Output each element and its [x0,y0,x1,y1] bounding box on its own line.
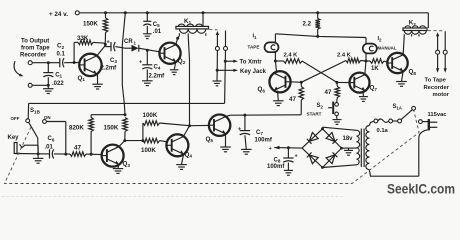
wire Q3 collector [119,139,127,147]
svg-text:.01: .01 [45,145,54,151]
svg-text:C6: C6 [48,136,55,142]
node input terminal lower [28,83,32,87]
capacitor C2 0.1 [57,43,66,68]
svg-text:150K: 150K [83,21,98,28]
resistor 2.2K supply [303,13,321,38]
lamp I2 MANUAL [363,36,397,61]
svg-text:C8: C8 [274,157,281,163]
transistor Q7 [350,73,378,93]
transistor Q5 [206,115,231,144]
resistor 100K lower [141,138,160,154]
wire K1 right contact down [224,50,227,103]
capacitor C8 100mf [267,148,298,171]
wire bridge right to ground [342,148,357,150]
wire 100K upper to node [160,123,190,126]
wire primary top to fuse [369,121,374,125]
svg-text:Key Jack: Key Jack [240,69,267,75]
resistor 820K [69,115,93,155]
wire switch linkage dashed [5,111,420,184]
wire rail to bias divider [122,11,127,114]
svg-text:I2: I2 [378,36,383,42]
wire C6 to 47 ohm [54,153,70,156]
ground Q2 emitter [170,62,179,75]
svg-text:820K: 820K [69,124,84,131]
svg-text:ON: ON [44,115,51,120]
watermark SeekIC.com [387,181,455,197]
wire K1 left contact to ground [216,50,219,81]
svg-text:100K: 100K [143,112,158,119]
node input terminal upper [28,61,32,65]
svg-text:+: + [107,40,110,46]
wire Q5 collector [226,114,302,117]
svg-text:Recorder: Recorder [424,85,450,91]
wire Q6 collector [275,61,276,72]
ground transformer center tap [344,150,353,155]
ground C5 [143,34,152,39]
svg-text:TAPE: TAPE [248,44,260,49]
svg-text:+ 24 v.: + 24 v. [49,11,68,18]
svg-text:START: START [307,111,322,116]
wire +24V rail [79,11,428,14]
resistor 150K Q3 collector [104,118,128,141]
svg-text:115vac: 115vac [428,112,448,118]
capacitor C7 100mf [238,115,273,149]
svg-text:+: + [238,127,241,133]
svg-text:47: 47 [325,89,332,96]
diode bridge CR2-CR5 [302,127,343,169]
wire primary bottom return [369,170,419,177]
svg-text:I1: I1 [253,34,258,40]
wire cross couple A [302,61,337,82]
ground Q7 emitter [359,91,368,102]
svg-text:.01: .01 [153,29,162,35]
svg-text:100K: 100K [141,147,156,154]
resistor 47 Q3 base [70,145,86,157]
svg-text:OFF: OFF [11,116,20,121]
wire Q6 base [291,81,303,84]
wire cross couple B [301,61,346,83]
transistor Q1 [78,46,106,83]
svg-text:47: 47 [74,145,81,152]
resistor 47 Q6 side [289,82,304,115]
capacitor C1 .022 [43,63,64,87]
transistor Q6 [258,71,291,93]
relay K2 coil [403,20,427,38]
svg-text:2.2mf: 2.2mf [149,74,166,80]
ground C8 [284,170,293,175]
ground Q4 emitter [176,154,187,169]
transistor Q8 [387,53,416,76]
transistor Q3 [102,145,131,168]
svg-text:Recorder: Recorder [20,52,47,58]
wire input lower [32,84,50,87]
svg-text:100mf: 100mf [255,137,273,143]
resistor 47 Q7 side [325,82,340,102]
ground K1 left contact [213,81,222,86]
label To Output from Tape Recorder [20,39,50,59]
relay K1 coil [176,18,209,36]
arrow to tape motor left [436,54,439,73]
fuse 0.1a [374,119,393,134]
ground Q5 emitter [220,134,231,152]
wire S1B ON contact [46,122,65,155]
node +24V supply terminal [49,11,79,18]
ground input [43,85,54,93]
arrow Key Jack [217,69,266,76]
svg-text:100mf: 100mf [267,164,285,170]
wire bridge to transformer top [323,127,357,130]
svg-text:S2: S2 [317,103,324,109]
svg-text:To Tape: To Tape [425,77,447,83]
label To Tape Recorder motor [424,77,450,98]
arrow to input terminals [14,61,23,76]
key jack [8,135,39,154]
transistor Q4 [166,134,192,158]
wire bridge to transformer bottom [323,165,357,168]
arrow To Xmtr [225,60,262,66]
capacitor C4 2.2mf [139,50,165,81]
diode CR1 [124,39,139,52]
wire Q3 collector to 100K pair [125,123,145,142]
wire K1 coil to Q5 base node [188,36,189,126]
svg-text:S1A: S1A [393,104,402,110]
relay K2 contact actuator [428,31,443,37]
svg-text:47: 47 [289,96,296,103]
capacitor C3 2.2mf [101,40,118,72]
svg-text:To Xmtr: To Xmtr [240,60,263,66]
wire rail to K2 [427,13,429,28]
wire Q8 collector to K2 [403,37,404,55]
svg-text:C5: C5 [153,22,160,28]
svg-text:0.1a: 0.1a [377,128,389,134]
transistor Q2 [159,43,185,66]
wire node to Q5 base [190,124,209,126]
wire bias tie [91,113,126,116]
ground C4 [142,81,153,86]
svg-text:CR: CR [124,39,133,45]
svg-text:18v: 18v [343,136,354,142]
svg-text:MANUAL: MANUAL [378,45,397,50]
relay K1 contact actuator [209,30,219,35]
resistor 33K feedback Q1 [74,35,105,63]
svg-text:Key: Key [8,135,20,141]
svg-text:from Tape: from Tape [21,45,50,51]
arrow to tape motor right [444,54,447,73]
wire C3 to CR1 [115,47,131,49]
resistor 150K collector Q1 [83,13,108,44]
wire Q2 collector to relay K1 [176,36,180,45]
wire 100K lower to Q4 base [160,141,168,142]
ground key line [33,154,44,163]
wire Q7 base [335,81,349,84]
svg-text:S1B: S1B [30,108,41,114]
wire 47 to Q3 base [86,153,102,156]
svg-text:2.4 K: 2.4 K [284,53,299,59]
label 18V [343,136,354,142]
svg-text:C4: C4 [154,64,161,70]
wire input upper [32,61,60,64]
svg-text:+: + [139,60,142,66]
resistor 2.4K left [275,53,302,64]
svg-text:+: + [295,154,298,160]
svg-text:To Output: To Output [21,39,49,45]
wire C2 to Q1 base [64,61,79,64]
relay K1 contact right [224,31,228,51]
wire 2.2K bottom rail [275,34,366,38]
ground Q6 emitter [273,91,284,106]
relay K2 contact left [436,36,440,54]
svg-text:150K: 150K [104,124,119,131]
wire CR1 to Q2 base [139,48,160,52]
svg-text:.022: .022 [52,81,64,87]
node Q1 collector [104,43,107,46]
switch S2 START [307,102,339,117]
wire Q7 collector [365,60,368,75]
wire DC output arrow [269,146,302,152]
relay K1 contact left [215,35,219,51]
wire Q4 collector to node [184,124,192,136]
svg-text:2.2mf: 2.2mf [101,66,118,72]
svg-text:2.2: 2.2 [303,21,312,28]
wire rail to K1 [202,13,204,26]
svg-text:2.4 K: 2.4 K [337,53,352,59]
plug 115vac [419,112,447,176]
svg-text:1K: 1K [371,66,379,72]
switch S1A [393,104,423,124]
ground Q8 emitter [396,71,407,86]
svg-text:+: + [269,146,272,152]
wire S1B common down [37,138,39,155]
lamp I1 TAPE [248,34,279,63]
svg-text:33K: 33K [77,35,89,42]
switch S1B [11,103,51,137]
svg-text:0.1: 0.1 [57,52,66,58]
resistor 2.4K right [337,53,366,63]
wire keying line horizontal [29,102,225,104]
ground C7 [241,149,252,154]
svg-text:C7: C7 [256,130,263,136]
ground S2 [333,116,342,125]
resistor 100K upper [143,112,160,125]
capacitor C6 .01 [45,136,55,159]
resistor 1K [366,59,387,72]
svg-text:C1: C1 [55,72,62,78]
ground Q3 emitter [113,164,123,173]
capacitor C5 .01 [143,13,162,35]
svg-text:C3: C3 [110,58,117,64]
wire key jack bottom [16,152,50,155]
ground Q1 emitter [92,74,103,89]
transformer T1 [357,126,370,170]
svg-text:SeekIC.com: SeekIC.com [387,181,455,197]
relay K2 contact right [443,31,447,54]
svg-text:motor: motor [433,92,450,98]
